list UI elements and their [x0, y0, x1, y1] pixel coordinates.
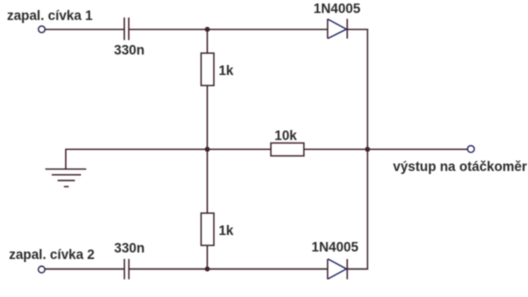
terminal coil2 [38, 266, 45, 273]
terminal output [468, 146, 475, 153]
svg-text:330n: 330n [114, 43, 145, 58]
node right-middle junction [365, 147, 370, 152]
svg-text:330n: 330n [114, 241, 145, 256]
capacitor C2 330n plates [123, 259, 125, 279]
wire middle: R3 to output terminal [304, 148, 468, 150]
svg-text:výstup na otáčkoměr: výstup na otáčkoměr [393, 159, 528, 174]
wire top: coil1 terminal to C1 [45, 28, 124, 30]
wire left column: R2 to bottom node [206, 245, 208, 269]
diode D1 cathode bar [346, 19, 348, 39]
wire bottom: D2 cathode to right column [347, 268, 368, 270]
wire top: D1 cathode to right column [347, 28, 368, 30]
capacitor C1 330n plates [123, 18, 125, 41]
node middle junction [205, 147, 210, 152]
wire left column: R1 to R2 through middle node [206, 86, 208, 214]
terminal coil1 [38, 26, 45, 33]
diode D1 triangle [328, 19, 347, 38]
wire middle: ground stub corner to R3 [66, 149, 271, 169]
node top junction [205, 27, 210, 32]
svg-text:zapal. cívka 1: zapal. cívka 1 [7, 8, 93, 23]
wire right column vertical [367, 29, 369, 269]
wire bottom: C2 to D2 anode [129, 268, 327, 270]
svg-text:1k: 1k [219, 63, 234, 78]
diode D1 anode bar [327, 19, 329, 39]
ground symbol bars [45, 168, 86, 170]
svg-text:zapal. cívka 2: zapal. cívka 2 [9, 247, 95, 262]
svg-text:10k: 10k [275, 128, 298, 143]
wire top: C1 to D1 anode [129, 28, 327, 30]
wire bottom: coil2 terminal to C2 [45, 268, 124, 270]
resistor R3 10k body [271, 143, 304, 156]
svg-text:1N4005: 1N4005 [312, 240, 359, 255]
wire left column: top node to R1 [206, 29, 208, 53]
svg-text:1N4005: 1N4005 [314, 1, 361, 16]
node bottom junction [205, 267, 210, 272]
resistor R2 1k body [201, 213, 214, 245]
svg-text:1k: 1k [219, 223, 234, 238]
diode D2 anode bar [327, 259, 329, 279]
diode D2 triangle [328, 259, 347, 279]
diode D2 cathode bar [346, 259, 348, 279]
resistor R1 1k body [201, 53, 214, 85]
